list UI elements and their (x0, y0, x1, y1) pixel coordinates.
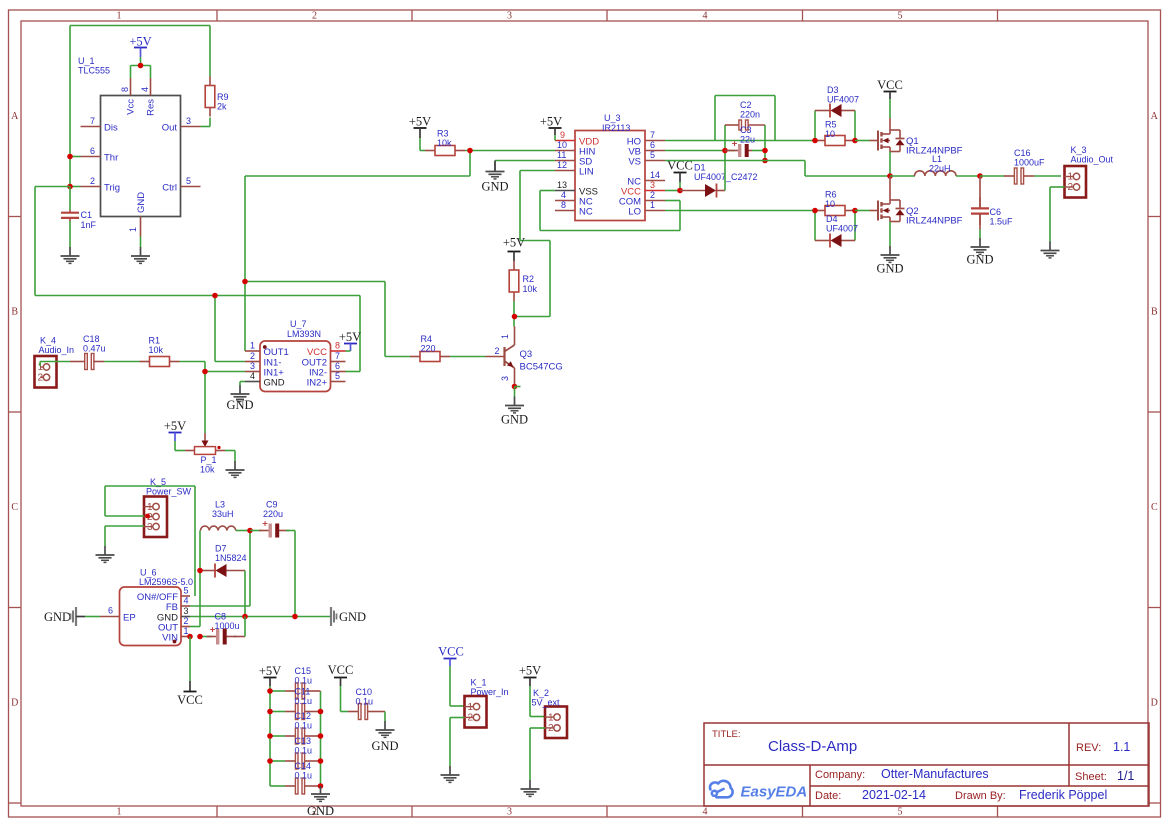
wire Q3 emitter to ground (514, 387, 516, 397)
wire VSS COM loop (540, 191, 680, 231)
svg-text:R4: R4 (421, 334, 433, 344)
power flag VCC D1 (667, 159, 693, 191)
svg-text:Q3: Q3 (520, 349, 533, 360)
svg-text:10: 10 (825, 129, 835, 139)
svg-text:+5V: +5V (339, 330, 361, 344)
svg-text:2: 2 (1068, 182, 1074, 193)
svg-text:UF4007: UF4007 (827, 95, 859, 105)
svg-text:+5V: +5V (540, 115, 562, 129)
capacitor C18 0.47u (70, 334, 106, 370)
svg-text:Thr: Thr (104, 153, 118, 164)
svg-text:GND: GND (501, 413, 528, 427)
svg-text:2: 2 (468, 713, 474, 724)
svg-text:1N5824: 1N5824 (215, 553, 247, 563)
svg-text:C: C (11, 502, 18, 513)
resistor R3 10k (425, 129, 465, 156)
svg-text:Trig: Trig (104, 183, 120, 194)
svg-text:C3: C3 (740, 125, 752, 135)
svg-text:13: 13 (557, 180, 567, 190)
wire SD to ground (495, 161, 555, 172)
wire P1 right to ground (225, 451, 235, 462)
power flag +5V cap bank (259, 664, 281, 691)
svg-text:6: 6 (335, 361, 340, 371)
svg-text:OUT1: OUT1 (264, 347, 289, 358)
svg-text:4: 4 (703, 807, 708, 818)
svg-text:EP: EP (123, 613, 136, 624)
svg-text:8: 8 (120, 87, 130, 92)
svg-text:3: 3 (507, 11, 512, 22)
svg-text:VIN: VIN (162, 633, 178, 644)
svg-text:IN2+: IN2+ (307, 378, 328, 389)
svg-text:B: B (11, 307, 18, 318)
svg-text:B: B (1151, 307, 1158, 318)
wire HO to R5 with detour (665, 96, 815, 141)
svg-text:C8: C8 (215, 612, 227, 622)
capacitor C9 220u (250, 500, 295, 538)
svg-text:Res: Res (146, 99, 157, 116)
wire U1 GND pin to ground (140, 237, 142, 248)
resistor R5 10 (815, 120, 855, 146)
svg-text:2021-02-14: 2021-02-14 (862, 788, 926, 802)
svg-text:8: 8 (561, 200, 566, 210)
svg-text:Frederik Pöppel: Frederik Pöppel (1019, 788, 1107, 802)
svg-text:4: 4 (561, 190, 566, 200)
capacitor C3 22u (725, 125, 755, 157)
capacitor C13 0.1u (270, 736, 321, 769)
svg-text:1/1: 1/1 (1117, 769, 1134, 783)
power flag +5V R2 (503, 236, 525, 262)
wire VCC pin 3 (665, 190, 680, 192)
svg-text:1: 1 (548, 712, 554, 723)
junction L3 FB C9 (247, 528, 253, 534)
svg-text:R3: R3 (437, 129, 449, 139)
power flag +5V U7 (339, 330, 361, 351)
svg-text:GND: GND (371, 739, 398, 753)
wire K5 pin3 to ground (105, 526, 144, 546)
svg-text:5: 5 (186, 176, 191, 186)
junction output rail (887, 173, 893, 179)
svg-text:3: 3 (147, 522, 153, 533)
svg-text:4: 4 (140, 87, 150, 92)
svg-text:0.1u: 0.1u (295, 676, 313, 686)
svg-text:R9: R9 (217, 92, 229, 102)
svg-text:10k: 10k (149, 345, 164, 355)
junction comparator output branch (242, 279, 248, 285)
svg-text:7: 7 (335, 351, 340, 361)
wire R6 to Q2 gate (855, 210, 870, 212)
svg-text:11: 11 (557, 150, 566, 160)
svg-text:1.5uF: 1.5uF (990, 217, 1014, 227)
power flag VCC K1 (438, 645, 464, 667)
junction R5 right (852, 138, 858, 144)
svg-text:22u: 22u (740, 135, 755, 145)
resistor R9 2k (205, 77, 228, 117)
svg-text:1: 1 (117, 11, 122, 22)
svg-text:+5V: +5V (519, 664, 541, 678)
svg-text:1000u: 1000u (215, 621, 240, 631)
svg-text:10: 10 (825, 199, 835, 209)
svg-text:Out: Out (162, 123, 178, 134)
junction R5 left (812, 138, 818, 144)
ground SD (481, 163, 508, 194)
svg-text:LO: LO (628, 207, 641, 218)
wire OUT to L3 (190, 531, 200, 627)
svg-text:+5V: +5V (164, 419, 186, 433)
svg-text:U_1: U_1 (78, 56, 95, 66)
svg-text:2: 2 (650, 190, 655, 200)
junction VS node (762, 158, 768, 164)
svg-text:A: A (1151, 111, 1159, 122)
diode D3 UF4007 (815, 85, 859, 141)
ground U7 (226, 385, 253, 412)
svg-text:3: 3 (250, 361, 255, 371)
svg-text:10k: 10k (523, 284, 538, 294)
transistor Q1 IRLZ44NPBF (870, 118, 963, 157)
svg-text:GND: GND (264, 378, 285, 389)
svg-text:LIN: LIN (579, 167, 594, 178)
svg-text:+5V: +5V (259, 664, 281, 678)
ground K5 (96, 546, 115, 562)
svg-text:Power_In: Power_In (471, 687, 509, 697)
svg-text:C14: C14 (295, 761, 312, 771)
svg-text:4: 4 (703, 11, 708, 22)
svg-text:2: 2 (548, 723, 554, 734)
capacitor C15 0.1u (270, 666, 321, 699)
svg-text:1: 1 (1068, 172, 1074, 183)
wire VIN to VCC flag (189, 637, 191, 682)
ground K1 (441, 766, 460, 782)
power flag +5V VDD (540, 115, 562, 141)
svg-text:22uH: 22uH (929, 164, 951, 174)
junction U1 power split (138, 63, 144, 69)
svg-text:Audio_In: Audio_In (39, 345, 75, 355)
svg-text:3: 3 (507, 807, 512, 818)
resistor R2 10k (509, 261, 537, 301)
svg-text:1: 1 (117, 807, 122, 818)
wire C8 right to GND rail (244, 617, 246, 637)
wire C9 to GND rail (294, 531, 296, 617)
junction D7 OUT (197, 568, 203, 574)
svg-text:K_1: K_1 (471, 678, 487, 688)
junction R6 left (812, 208, 818, 214)
svg-text:6: 6 (650, 140, 655, 150)
svg-text:D3: D3 (827, 85, 839, 95)
svg-text:0.1u: 0.1u (356, 697, 374, 707)
junction dots cap bank left (267, 688, 273, 764)
svg-text:U_6: U_6 (140, 568, 157, 578)
svg-text:Sheet:: Sheet: (1075, 771, 1107, 783)
svg-text:12: 12 (557, 160, 567, 170)
comparator U7 LM393N (245, 319, 346, 392)
svg-text:REV:: REV: (1076, 742, 1101, 754)
svg-text:K_2: K_2 (533, 688, 549, 698)
svg-text:3: 3 (650, 180, 655, 190)
svg-text:3: 3 (500, 376, 510, 381)
svg-text:R6: R6 (825, 190, 837, 200)
diode D1 UF4007_C2472 (680, 163, 758, 198)
svg-text:0.1u: 0.1u (295, 771, 313, 781)
svg-text:VCC: VCC (328, 663, 354, 677)
svg-text:VCC: VCC (438, 645, 464, 659)
wire FB to L3 output (190, 531, 250, 607)
connector K_1 Power_In (464, 678, 509, 728)
junction VIN VCC (187, 634, 193, 640)
wire U1 output to R9 (201, 118, 211, 127)
junction Q3 emitter (512, 384, 521, 390)
svg-text:TLC555: TLC555 (78, 66, 110, 76)
svg-text:5V_ext: 5V_ext (532, 698, 561, 708)
svg-text:2: 2 (90, 176, 95, 186)
wire U7 GND pin to ground (240, 382, 245, 386)
wire GND rail U6 (190, 616, 331, 618)
svg-text:2: 2 (312, 11, 317, 22)
svg-text:GND: GND (136, 192, 147, 213)
inductor L1 22uH (890, 154, 980, 176)
ground K_3 (1041, 242, 1060, 258)
svg-text:L3: L3 (215, 500, 225, 510)
svg-text:0.1u: 0.1u (295, 746, 313, 756)
svg-text:NC: NC (579, 207, 593, 218)
svg-text:2k: 2k (217, 102, 227, 112)
wire R3 to HIN (465, 150, 555, 152)
resistor R4 220 (410, 334, 450, 362)
svg-text:1000uF: 1000uF (1014, 158, 1045, 168)
timer U1 TLC555 (78, 56, 201, 237)
svg-text:TITLE:: TITLE: (712, 729, 741, 740)
svg-text:P_1: P_1 (201, 455, 217, 465)
svg-text:Otter-Manufactures: Otter-Manufactures (881, 767, 989, 781)
svg-text:1: 1 (650, 200, 655, 210)
capacitor C12 0.1u (270, 711, 321, 744)
svg-text:7: 7 (90, 116, 95, 126)
connector K_3 Audio_Out (1064, 145, 1114, 198)
wire R2 to Q3 collector (513, 301, 515, 327)
junction VB node (722, 148, 728, 154)
svg-text:+5V: +5V (409, 115, 431, 129)
svg-text:LM393N: LM393N (287, 329, 321, 339)
wire P1 wiper (204, 433, 206, 439)
junction K5 pin2 (145, 514, 150, 519)
svg-text:D7: D7 (215, 544, 227, 554)
wire VCC to K1 pin1 (450, 666, 465, 706)
wire cap bank left rail (269, 691, 271, 786)
ground P1 (226, 461, 245, 477)
svg-text:1: 1 (184, 626, 189, 636)
wire bootstrap right node (752, 125, 765, 161)
svg-text:GND: GND (481, 180, 508, 194)
svg-text:Class-D-Amp: Class-D-Amp (768, 738, 857, 755)
svg-text:D1: D1 (694, 163, 706, 173)
wire R1 to IN1+ and P1 (180, 362, 246, 434)
driver U3 IR2113 (555, 113, 665, 221)
svg-text:4: 4 (250, 371, 255, 381)
junction R3 HIN (467, 148, 473, 154)
wire VB to bootstrap node (665, 150, 735, 152)
svg-text:9: 9 (560, 130, 565, 140)
power flag VCC Q1 (877, 78, 903, 118)
wire LIN to Q3 collector node (515, 171, 555, 317)
ground Q2 (876, 246, 903, 276)
wire C18 to R1 (104, 361, 139, 363)
transistor Q2 IRLZ44NPBF (870, 176, 963, 227)
resistor R6 10 (815, 190, 855, 216)
svg-text:6: 6 (108, 606, 113, 616)
svg-text:220n: 220n (740, 110, 760, 120)
connector K_4 Audio_In (35, 336, 75, 388)
power flag +5V R3 (409, 115, 431, 151)
regulator U6 LM2596S-5.0 (100, 568, 193, 646)
svg-text:C12: C12 (295, 711, 312, 721)
capacitor C6 1.5uF (971, 176, 1013, 238)
svg-text:U_7: U_7 (290, 319, 307, 329)
svg-text:+5V: +5V (503, 236, 525, 250)
wire +5V to K2 pin1 (530, 686, 545, 717)
wire comparator output net (245, 151, 470, 357)
junction L1 C6 (977, 173, 983, 179)
potentiometer P_1 10k (185, 439, 225, 475)
svg-text:GND: GND (307, 804, 334, 818)
wire D7 anode to GND rail (244, 571, 246, 617)
junction R2 Q3 (512, 314, 518, 320)
svg-text:EasyEDA: EasyEDA (741, 784, 808, 801)
wire K2 pin2 to ground (530, 728, 545, 780)
svg-text:C10: C10 (356, 687, 373, 697)
svg-text:10k: 10k (437, 138, 452, 148)
svg-text:VS: VS (628, 157, 641, 168)
svg-text:220u: 220u (263, 509, 283, 519)
ground cap bank (307, 786, 334, 818)
diode D4 UF4007 (815, 211, 858, 248)
svg-text:7: 7 (650, 130, 655, 140)
svg-text:6: 6 (90, 146, 95, 156)
wire triangle node to comparator inputs (35, 187, 360, 372)
wire R5 to Q1 gate (855, 140, 870, 142)
svg-text:VCC: VCC (877, 78, 903, 92)
power flag +5V U1 (129, 35, 151, 58)
svg-text:5: 5 (335, 371, 340, 381)
svg-text:1: 1 (500, 334, 510, 339)
wire +5V to U1 pins 8 and 4 (131, 57, 151, 78)
svg-text:GND: GND (966, 253, 993, 267)
svg-text:U_3: U_3 (604, 113, 621, 123)
svg-text:C16: C16 (1014, 148, 1031, 158)
wire cap bank right rail (320, 691, 322, 786)
svg-text:GND: GND (226, 398, 253, 412)
svg-text:0.1u: 0.1u (295, 696, 313, 706)
wire C1 to ground (69, 221, 71, 247)
svg-text:+5V: +5V (129, 35, 151, 49)
title block (704, 723, 1149, 806)
capacitor C1 1nF (61, 210, 97, 230)
svg-text:3: 3 (186, 116, 191, 126)
svg-text:C9: C9 (266, 500, 278, 510)
wire D1 cathode to bootstrap node (724, 125, 726, 191)
svg-text:Dis: Dis (104, 123, 118, 134)
svg-text:D: D (1151, 698, 1158, 709)
resistor R1 10k (140, 336, 180, 367)
svg-text:C13: C13 (295, 736, 312, 746)
junction R1 divider (202, 369, 208, 375)
wire Q2 source to ground (889, 222, 891, 247)
capacitor C14 0.1u (270, 761, 321, 794)
wire Q1 source to rail (889, 152, 891, 177)
junction VCC D1 (677, 188, 683, 194)
svg-text:10: 10 (557, 140, 567, 150)
logo EasyEDA (710, 781, 807, 801)
svg-text:2: 2 (494, 346, 499, 356)
wire K_4 to C18 (40, 362, 70, 367)
svg-text:L1: L1 (932, 154, 942, 164)
junction D7 GND rail (242, 614, 248, 620)
svg-text:C2: C2 (740, 100, 752, 110)
svg-text:1nF: 1nF (81, 220, 97, 230)
svg-text:5: 5 (898, 807, 903, 818)
junction dots cap bank right (318, 709, 324, 789)
wire Trig to C1 (69, 187, 71, 211)
svg-text:Power_SW: Power_SW (146, 487, 192, 497)
connector K_5 Power_SW (144, 477, 192, 537)
transistor Q3 BC547CG (486, 327, 563, 387)
junction C9 GND rail (292, 614, 298, 620)
svg-text:R2: R2 (523, 274, 535, 284)
svg-text:Date:: Date: (815, 790, 841, 802)
svg-text:D: D (11, 698, 18, 709)
svg-text:VCC: VCC (177, 693, 203, 707)
svg-text:1: 1 (128, 227, 138, 232)
svg-text:3: 3 (184, 606, 189, 616)
svg-text:K_4: K_4 (40, 336, 56, 346)
junction Trig (67, 184, 73, 190)
svg-text:C18: C18 (83, 334, 100, 344)
svg-text:A: A (11, 111, 19, 122)
ground flag EP left (44, 607, 100, 626)
ground K2 (521, 780, 540, 796)
capacitor C10 0.1u (341, 687, 386, 720)
svg-text:1.1: 1.1 (1113, 740, 1130, 754)
wire K5 pin2 to ON/OFF (105, 486, 195, 596)
wire LO to R6 (665, 210, 815, 212)
svg-text:1: 1 (468, 702, 474, 713)
wire VS to output rail (665, 161, 890, 177)
svg-text:FB: FB (166, 602, 178, 613)
ground Q3 (501, 397, 528, 427)
junction VIN C8 (197, 634, 203, 640)
svg-text:C: C (1151, 502, 1158, 513)
svg-text:0.1u: 0.1u (295, 721, 313, 731)
svg-text:5: 5 (898, 11, 903, 22)
svg-text:220: 220 (421, 344, 436, 354)
capacitor C16 1000uF (980, 148, 1061, 184)
junction node triangle to IN1- (212, 293, 218, 299)
svg-text:GND: GND (339, 610, 366, 624)
svg-text:2: 2 (38, 373, 44, 384)
ground flag GND rail right (331, 607, 366, 626)
svg-text:K_3: K_3 (1071, 145, 1087, 155)
svg-text:2: 2 (250, 351, 255, 361)
svg-text:1: 1 (250, 341, 255, 351)
svg-text:C15: C15 (295, 666, 312, 676)
svg-text:33uH: 33uH (212, 509, 234, 519)
svg-text:Ctrl: Ctrl (162, 183, 177, 194)
svg-text:5: 5 (650, 150, 655, 160)
svg-text:D4: D4 (826, 214, 838, 224)
svg-text:+: + (732, 139, 738, 150)
junction C3 right (762, 148, 768, 154)
svg-text:C6: C6 (990, 207, 1002, 217)
wire K_3 pin2 to ground (1050, 187, 1065, 242)
power flag +5V P1 (164, 419, 186, 451)
svg-text:10k: 10k (200, 465, 215, 475)
